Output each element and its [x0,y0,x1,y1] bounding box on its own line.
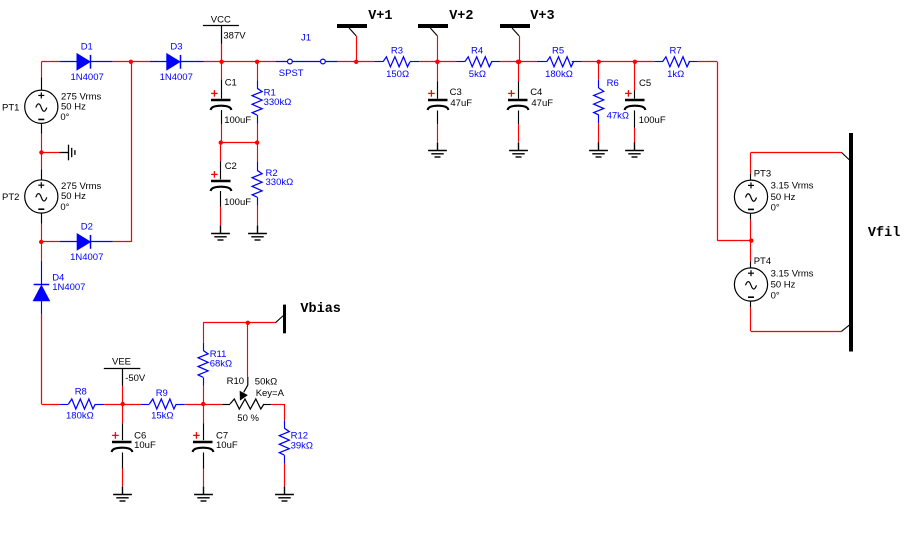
wire PT4 to Vfil bottom [751,331,841,333]
svg-text:0°: 0° [60,202,69,213]
wire rail to R6 [598,62,600,80]
wire PT4 bottom [750,301,752,307]
svg-text:D3: D3 [170,42,182,53]
svg-text:V+3: V+3 [530,9,554,24]
junction V+3 [517,60,521,64]
svg-text:3.15 Vrms: 3.15 Vrms [771,181,814,192]
svg-text:R8: R8 [75,386,87,397]
wire wiper down [247,323,249,377]
svg-text:180kΩ: 180kΩ [545,69,573,80]
svg-text:50 Hz: 50 Hz [61,191,86,202]
diode D3 [167,54,181,70]
wire D2 to riser [113,241,132,243]
resistor R9 [141,404,150,406]
svg-text:3.15 Vrms: 3.15 Vrms [771,269,814,280]
wire VCC to rail [221,44,223,62]
wire C3 to ground [437,111,439,125]
svg-text:V+1: V+1 [368,9,392,24]
net connector V+3 [500,24,530,28]
svg-text:D2: D2 [81,222,93,233]
wire rail to C4 [518,62,520,82]
svg-text:0°: 0° [771,291,780,302]
wire mid rail to R2 [257,143,259,162]
wire V+3 to rail [519,36,521,62]
diode D2 leads [60,241,77,243]
svg-text:VEE: VEE [112,356,131,367]
resistor R1 [257,80,259,88]
svg-text:C4: C4 [530,87,542,98]
AC source PT1 [25,90,58,123]
svg-text:C5: C5 [639,78,651,89]
svg-text:0°: 0° [771,203,780,214]
wire D4 to bottom rail [41,314,43,404]
Vfil bottom diagonal [841,325,849,332]
svg-text:330kΩ: 330kΩ [266,177,294,188]
junction V+3 [516,60,520,64]
wire R3 to V+2 node and R4 [419,61,456,63]
Vfil top diagonal [842,152,850,160]
svg-text:SPST: SPST [279,68,304,79]
junction Vbias wiper [246,321,250,325]
junction C5 [633,60,637,64]
svg-text:39kΩ: 39kΩ [291,440,313,451]
svg-text:50 Hz: 50 Hz [771,192,796,203]
VEE power rail symbol [104,368,141,370]
capacitor C2 [211,171,232,191]
wire corner down to R12 [284,404,286,420]
junction C1-C2 [219,140,223,144]
resistor R5 [537,61,547,63]
capacitor C5 [625,90,646,110]
svg-text:VCC: VCC [211,14,231,25]
wire to sideways ground [41,152,59,154]
VCC power rail symbol [203,25,239,27]
potentiometer R10 body [222,404,230,406]
svg-text:D1: D1 [81,42,93,53]
ground under R2 [248,225,267,240]
svg-text:PT1: PT1 [2,102,19,113]
svg-text:180kΩ: 180kΩ [66,411,94,422]
wire corner to R8 [41,404,60,406]
svg-text:1kΩ: 1kΩ [667,69,684,80]
svg-text:100uF: 100uF [639,115,666,126]
junction D1-D3 [129,60,133,64]
junction rail R1 [255,60,259,64]
wire C2 to ground [220,191,222,207]
svg-text:PT2: PT2 [2,192,19,203]
svg-text:47uF: 47uF [450,98,472,109]
resistor R2 [257,162,259,170]
wire VEE to rail [122,386,124,405]
diode D3 leads [150,61,167,63]
wire R1 to mid rail [257,124,259,143]
svg-text:47uF: 47uF [531,98,553,109]
junction R1-R2 [255,140,259,144]
resistor R12 [284,420,286,428]
svg-text:R7: R7 [670,46,682,57]
wire R5 to R6 C5 and R7 [582,61,655,63]
svg-text:R6: R6 [607,78,619,89]
wire R6 to ground [598,123,600,142]
diode D1 [77,54,91,70]
ground under R6 [589,142,608,157]
resistor R11 [203,343,205,351]
svg-text:5kΩ: 5kΩ [469,69,486,80]
diode D4 leads [41,261,43,284]
svg-text:PT4: PT4 [754,256,771,267]
svg-text:47kΩ: 47kΩ [607,111,629,122]
svg-text:68kΩ: 68kΩ [210,358,232,369]
svg-text:Key=A: Key=A [256,388,285,399]
svg-text:0°: 0° [60,112,69,123]
capacitor C1 [211,90,232,110]
wire J1 to V+1 node and R3 [338,61,375,63]
ground under C2 [211,225,230,240]
svg-text:10uF: 10uF [134,440,156,451]
svg-text:1N4007: 1N4007 [70,252,103,263]
resistor R3 [374,61,383,63]
wire riser D2 to top rail [131,62,133,242]
wire PT2 to D2 node [41,213,43,223]
svg-text:387V: 387V [223,30,246,41]
diode D1 leads [60,61,77,63]
resistor R6 [598,80,600,88]
resistor R4 [456,61,465,63]
Vbias diagonal [275,316,283,323]
svg-text:50 %: 50 % [237,413,259,424]
svg-text:50 Hz: 50 Hz [61,101,86,112]
wire R9 to R10 node [185,404,203,406]
wire feeder to PT3-PT4 node [717,240,751,242]
svg-text:10uF: 10uF [216,440,238,451]
svg-text:R9: R9 [156,388,168,399]
svg-text:150Ω: 150Ω [386,69,409,80]
wire PT1 to ground node [41,123,43,133]
ground under R12 [275,486,294,501]
capacitor C7 [193,432,214,452]
wire R4 to V+3 node and R5 [500,61,536,63]
wire rail to R1 [257,62,259,81]
wire PT3 top [750,152,752,173]
wire C4 to ground [518,111,520,125]
wire R11 top [203,323,205,343]
svg-text:C2: C2 [225,161,237,172]
AC source PT3 [734,180,767,213]
ground under C5 [625,142,644,157]
resistor R7 [655,61,663,63]
svg-text:R10: R10 [227,376,244,387]
ground under C7 [194,486,213,501]
svg-text:100uF: 100uF [224,197,251,208]
wire C1 to mid rail [221,110,223,124]
junction VEE C6 [121,402,125,406]
wire rail down to PT1 [41,62,43,78]
svg-text:R5: R5 [552,46,564,57]
junction D2 tap [39,240,43,244]
junction PT3-PT4 [749,238,753,242]
svg-text:1N4007: 1N4007 [71,72,104,83]
junction R11 C7 R10 [201,402,205,406]
svg-text:C1: C1 [225,77,237,88]
wire rail to C3 [437,62,439,82]
svg-text:-50V: -50V [125,373,146,384]
wire PT1 top to D1 [41,61,60,63]
capacitor C6 [112,432,133,452]
net connector Vfil bar [849,133,853,352]
wire mid rail [221,142,257,144]
AC source PT2 [25,180,58,213]
ground under C4 [509,142,528,157]
svg-text:1N4007: 1N4007 [52,282,85,293]
wire mid rail to C2 [220,143,222,162]
wire rail to C5 [634,62,636,91]
switch J1 SPST [276,61,338,63]
net connector V+2 [418,24,448,28]
svg-text:50kΩ: 50kΩ [255,376,277,387]
svg-text:50 Hz: 50 Hz [771,280,796,291]
net connector V+1 [337,24,367,28]
junction PT1-PT2 ground node [39,150,43,154]
svg-text:Vbias: Vbias [300,302,341,317]
wire Vbias rail [203,322,275,324]
wire D2 node to D2 [41,241,60,243]
svg-text:V+2: V+2 [449,9,473,24]
wire rail to C1 [221,62,223,80]
svg-text:R3: R3 [391,46,403,57]
wire C7 to ground [203,453,205,469]
svg-text:R4: R4 [471,46,483,57]
wire node to PT4 top [750,241,752,262]
ground under C6 [113,486,132,501]
wire PT3 to Vfil top [751,152,842,154]
wire R2 to ground [257,206,259,226]
wire C5 to ground [634,110,636,128]
svg-text:PT3: PT3 [754,168,771,179]
wire R10 right to R12 corner [271,404,284,406]
wire R10 node up to R11 [203,386,205,404]
wire R10 left [203,404,222,406]
wire D3 to switch J1 [204,61,276,63]
junction V+2 [435,60,439,64]
wire C6 to ground [122,453,124,469]
wire right feeder down [717,62,719,241]
wire PT3 bottom to node [750,213,752,219]
svg-text:J1: J1 [301,33,311,44]
ground (center tap) [60,145,75,161]
AC source PT4 [734,268,767,301]
ground under C3 [428,142,447,157]
potentiometer R10 wiper arrow [240,377,248,400]
svg-text:330kΩ: 330kΩ [264,97,292,108]
wire V+1 to rail [356,36,358,62]
wire R10 node to C7 [203,404,205,423]
wire R7 to right feeder [698,61,718,63]
wire D2 node down to D4 [41,242,43,261]
net connector Vbias bar [283,305,286,334]
wire ground node to PT2 [41,152,43,169]
diode D4 [33,285,49,301]
wire R8 to VEE node [104,404,123,406]
svg-text:1N4007: 1N4007 [160,72,193,83]
wire V+2 to rail [437,36,439,62]
capacitor C3 [428,90,449,110]
wire D1 to D3 [112,61,149,63]
diode D2 [77,234,90,250]
svg-text:Vfil: Vfil [868,226,900,241]
wire R12 to ground [284,463,286,486]
svg-text:C3: C3 [450,87,462,98]
wire VEE node to R9 [123,404,141,406]
svg-text:100uF: 100uF [224,115,251,126]
junction R6 [597,60,601,64]
capacitor C4 [508,90,529,110]
junction V+1 [354,60,358,64]
junction V+2 [435,60,439,64]
resistor R8 [60,404,68,406]
junction VCC rail [219,60,223,64]
wire VEE node to C6 [122,404,124,423]
svg-text:15kΩ: 15kΩ [151,411,173,422]
